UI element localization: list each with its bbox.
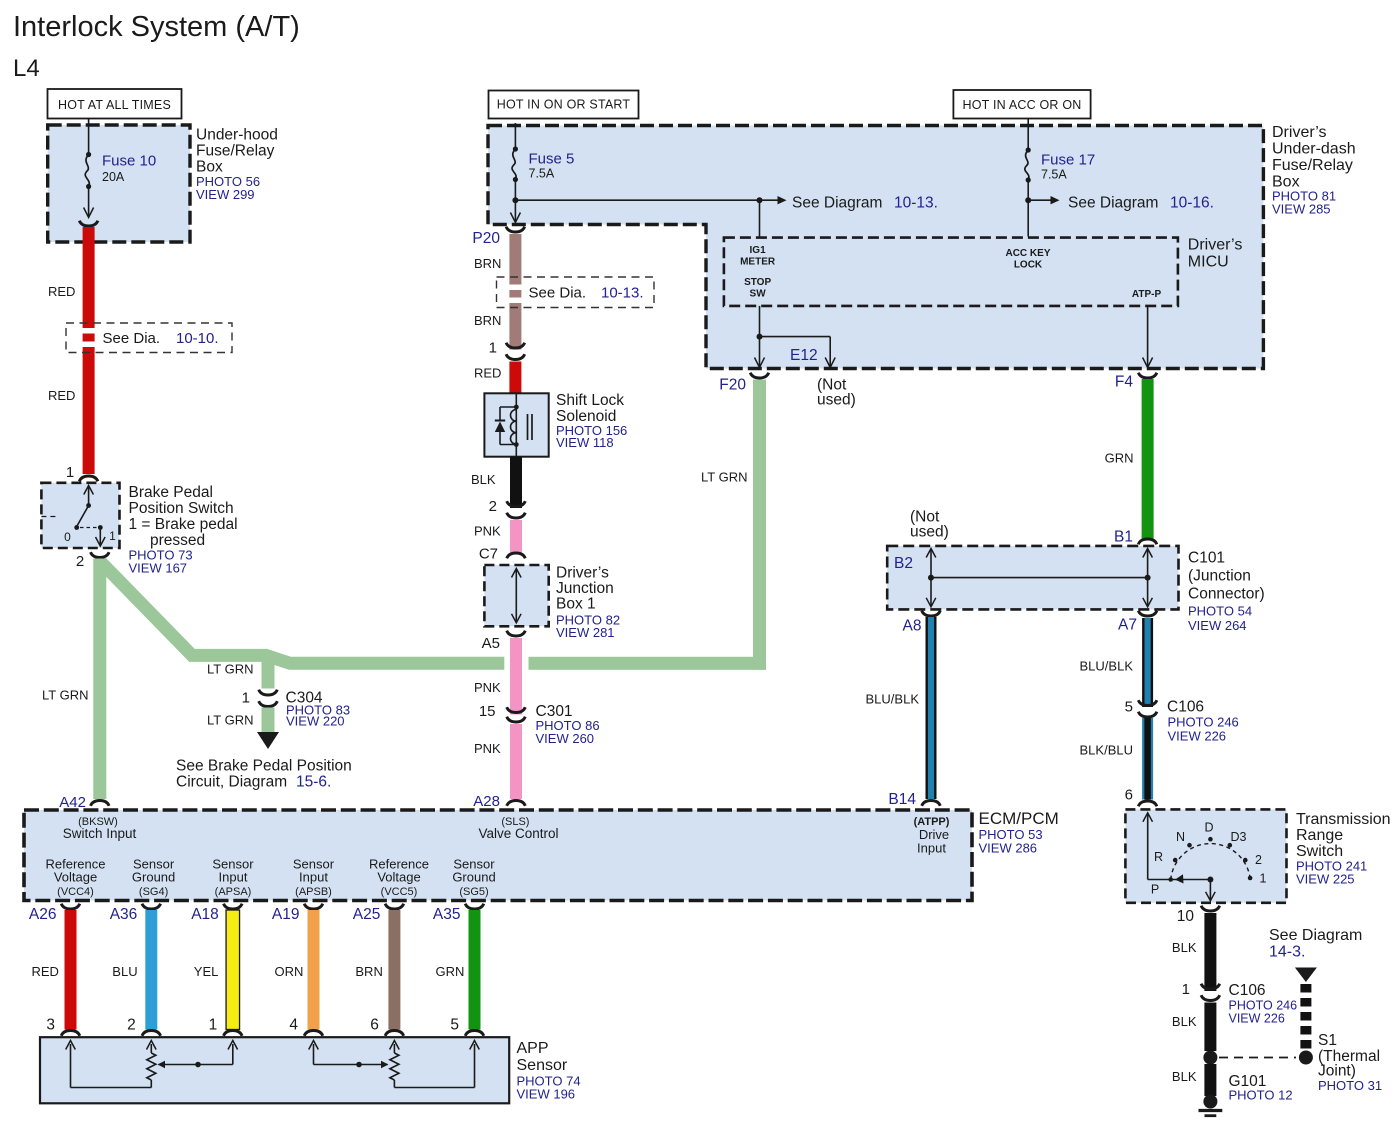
svg-text:VIEW 264: VIEW 264 [1188, 618, 1247, 633]
connector C106 lower [1201, 984, 1220, 989]
svg-text:used): used) [910, 524, 949, 541]
connector C301 [507, 707, 526, 712]
junction dot thermal [1203, 1051, 1217, 1065]
wire RED to solenoid [509, 362, 521, 395]
svg-text:A5: A5 [482, 635, 500, 652]
wire BLU/BLK A7 to C106 [1142, 618, 1153, 707]
svg-text:Junction: Junction [556, 580, 614, 597]
svg-text:S1: S1 [1318, 1032, 1337, 1049]
svg-text:Under-hood: Under-hood [196, 127, 278, 144]
svg-text:Transmission: Transmission [1296, 811, 1391, 828]
svg-text:PHOTO 246: PHOTO 246 [1168, 715, 1239, 730]
connector A28 [507, 801, 526, 806]
svg-text:A8: A8 [903, 618, 922, 635]
svg-text:BLK: BLK [1172, 1069, 1197, 1084]
drivers junction box 1 [484, 565, 548, 626]
svg-text:VIEW 260: VIEW 260 [536, 731, 595, 746]
ground G101 symbol [1203, 1095, 1217, 1109]
wire LT GRN vertical from F20 [753, 380, 766, 670]
wire LT GRN stub to C304 [262, 651, 275, 689]
svg-text:VIEW 220: VIEW 220 [286, 714, 345, 729]
wire IG1 drop [759, 200, 761, 237]
svg-text:A18: A18 [191, 906, 219, 923]
svg-text:2: 2 [127, 1017, 136, 1034]
C101 junction connector box [887, 546, 1178, 610]
svg-text:VIEW 167: VIEW 167 [129, 561, 188, 576]
connector C304 [259, 690, 278, 695]
svg-text:Position Switch: Position Switch [129, 500, 234, 517]
svg-text:IG1: IG1 [750, 245, 767, 256]
svg-text:VIEW 225: VIEW 225 [1296, 872, 1355, 887]
svg-text:VIEW 285: VIEW 285 [1272, 202, 1331, 217]
drivers MICU box [724, 238, 1178, 306]
svg-text:BLK: BLK [1172, 940, 1197, 955]
svg-text:Joint): Joint) [1318, 1063, 1356, 1080]
svg-text:Fuse/Relay: Fuse/Relay [196, 143, 275, 160]
svg-text:(VCC4): (VCC4) [57, 886, 94, 898]
connector pin under fuse box [79, 221, 98, 226]
svg-text:RED: RED [48, 388, 75, 403]
wire LT GRN vertical to A42 [93, 559, 106, 800]
svg-text:L4: L4 [13, 55, 40, 82]
svg-text:PHOTO 12: PHOTO 12 [1229, 1088, 1293, 1103]
connector inline pin2 [507, 501, 526, 506]
svg-text:10: 10 [1177, 908, 1195, 925]
svg-text:Voltage: Voltage [377, 870, 420, 885]
svg-text:6: 6 [1125, 787, 1133, 804]
svg-text:BLU/BLK: BLU/BLK [866, 692, 920, 707]
svg-text:RED: RED [474, 366, 501, 381]
svg-text:VIEW 118: VIEW 118 [556, 435, 614, 450]
svg-text:ACC KEY: ACC KEY [1005, 248, 1050, 259]
wire BLU A36 to APP sensor [145, 910, 157, 1030]
connector F4 [1138, 373, 1157, 378]
see dia 10-13 reference box [497, 277, 655, 308]
svg-text:F20: F20 [719, 377, 746, 394]
under-hood fuse/relay box [48, 125, 190, 242]
svg-text:ECM/PCM: ECM/PCM [979, 809, 1059, 828]
wire fuse5 branch to IG1 [515, 199, 759, 201]
svg-text:VIEW 226: VIEW 226 [1168, 729, 1227, 744]
svg-text:1: 1 [242, 690, 250, 707]
connector A36 [142, 904, 161, 909]
wire RED lower segment [83, 347, 95, 474]
wire LT GRN horizontal to F20 (right part) [529, 657, 767, 670]
junction dot fuse5 branch [512, 197, 518, 203]
svg-text:Ground: Ground [452, 870, 495, 885]
connector pin 6 TRS [1138, 801, 1157, 806]
svg-text:20A: 20A [102, 170, 125, 184]
wire BLU/BLK A8 to B14 [926, 617, 937, 799]
svg-text:SW: SW [750, 289, 767, 300]
svg-text:PHOTO 31: PHOTO 31 [1318, 1078, 1382, 1093]
svg-text:BLK/BLU: BLK/BLU [1080, 743, 1133, 758]
svg-text:1: 1 [209, 1017, 218, 1034]
svg-text:7.5A: 7.5A [1041, 168, 1067, 182]
svg-text:GRN: GRN [436, 964, 465, 979]
svg-text:See Dia.: See Dia. [103, 330, 161, 347]
svg-text:(SG4): (SG4) [139, 886, 168, 898]
thermal joint S1 node [1299, 1051, 1313, 1065]
svg-text:Switch Input: Switch Input [63, 826, 137, 841]
APP sensor internals (potentiometers) [66, 1041, 76, 1050]
svg-text:LOCK: LOCK [1014, 260, 1043, 271]
svg-text:5: 5 [1125, 699, 1133, 716]
svg-text:PNK: PNK [474, 680, 501, 695]
svg-text:BRN: BRN [474, 313, 501, 328]
svg-text:E12: E12 [790, 347, 818, 364]
svg-text:Fuse/Relay: Fuse/Relay [1272, 157, 1353, 174]
svg-text:BRN: BRN [474, 256, 501, 271]
connector A25 [385, 904, 404, 909]
svg-text:PNK: PNK [474, 524, 501, 539]
svg-text:STOP: STOP [744, 277, 771, 288]
svg-text:Sensor: Sensor [517, 1057, 568, 1074]
connector APP pin 5 [465, 1031, 484, 1036]
svg-text:3: 3 [46, 1017, 55, 1034]
connector F20 [750, 373, 769, 378]
svg-text:Input: Input [219, 870, 248, 885]
svg-text:VIEW 299: VIEW 299 [196, 187, 255, 202]
connector A42 [91, 801, 110, 806]
svg-text:BLU/BLK: BLU/BLK [1080, 659, 1134, 674]
svg-text:Driver’s: Driver’s [556, 565, 609, 582]
transmission range switch box [1125, 809, 1286, 902]
solenoid internals [515, 393, 517, 456]
svg-text:A26: A26 [29, 906, 57, 923]
svg-text:Connector): Connector) [1188, 586, 1265, 603]
svg-text:2: 2 [489, 498, 497, 515]
svg-text:N: N [1176, 830, 1185, 844]
svg-text:HOT AT ALL TIMES: HOT AT ALL TIMES [58, 98, 171, 112]
junction box internal arrow [515, 570, 517, 623]
svg-text:Valve Control: Valve Control [478, 826, 558, 841]
svg-text:D3: D3 [1231, 830, 1247, 844]
svg-text:PHOTO 246: PHOTO 246 [1229, 999, 1298, 1013]
svg-text:HOT IN ON OR START: HOT IN ON OR START [497, 98, 631, 112]
fuse F17 [1026, 147, 1031, 152]
svg-text:C101: C101 [1188, 550, 1225, 567]
svg-text:Shift Lock: Shift Lock [556, 392, 624, 409]
svg-text:A25: A25 [353, 906, 381, 923]
svg-text:Brake Pedal: Brake Pedal [129, 484, 213, 501]
svg-text:A28: A28 [473, 793, 500, 810]
svg-text:A7: A7 [1118, 617, 1137, 634]
svg-text:Box 1: Box 1 [556, 596, 596, 613]
connector inline pin1 [506, 343, 525, 348]
svg-text:ORN: ORN [275, 964, 304, 979]
svg-text:1: 1 [109, 529, 116, 543]
svg-text:Switch: Switch [1296, 843, 1343, 860]
svg-text:(APSB): (APSB) [295, 886, 332, 898]
connector A26 [61, 904, 80, 909]
wire STOP SW down [759, 306, 761, 367]
svg-text:Box: Box [196, 159, 223, 176]
svg-text:APP: APP [517, 1040, 549, 1057]
svg-text:10-13.: 10-13. [894, 195, 938, 212]
svg-text:(SG5): (SG5) [459, 886, 488, 898]
wire RED A26 to APP sensor [65, 910, 77, 1030]
wire RED mid segment [83, 334, 95, 342]
wire E12 branch [760, 336, 831, 338]
wire RED fuse10 to brake switch (upper) [83, 227, 95, 328]
fuse F10 [86, 152, 91, 157]
svg-text:F4: F4 [1115, 374, 1133, 391]
arrow see diagram 10-16 [1028, 199, 1052, 201]
svg-text:10-16.: 10-16. [1170, 195, 1214, 212]
svg-text:BLU: BLU [112, 964, 137, 979]
svg-text:LT GRN: LT GRN [42, 688, 88, 703]
power tag HOT IN ACC OR ON [953, 90, 1090, 119]
svg-text:Fuse 17: Fuse 17 [1041, 152, 1095, 169]
svg-text:(Junction: (Junction [1188, 568, 1251, 585]
connector P20 [506, 227, 525, 232]
see dia 10-10 reference box [66, 323, 232, 353]
connector pin 10 [1201, 906, 1220, 911]
shift lock solenoid box [484, 393, 548, 456]
junction dot fuse17 [1025, 197, 1031, 203]
svg-text:LT GRN: LT GRN [701, 470, 747, 485]
connector pin 1 brake switch [79, 476, 98, 481]
wire BRN upper [509, 234, 521, 285]
svg-text:1: 1 [1260, 872, 1267, 886]
APP sensor box [40, 1037, 509, 1103]
svg-text:Driver’s: Driver’s [1272, 124, 1327, 141]
svg-text:P20: P20 [472, 230, 500, 247]
thermal joint arrow [1295, 968, 1317, 983]
thermal joint dashed link [1219, 1057, 1296, 1059]
connector APP pin 2 [142, 1031, 161, 1036]
svg-text:10-13.: 10-13. [601, 285, 644, 302]
svg-text:METER: METER [740, 257, 776, 268]
svg-text:B2: B2 [894, 555, 913, 572]
svg-text:See Diagram: See Diagram [1068, 195, 1158, 212]
svg-text:A36: A36 [110, 906, 138, 923]
wire PNK C301 to A28 [510, 724, 522, 799]
wire LT GRN horizontal to F20 (left part) [266, 655, 504, 663]
connector APP pin 6 [385, 1031, 404, 1036]
svg-text:See Brake Pedal Position: See Brake Pedal Position [176, 758, 352, 775]
power tag HOT IN ON OR START [489, 91, 639, 119]
wire YEL A18 to APP sensor [226, 910, 240, 1030]
svg-text:ATP-P: ATP-P [1132, 289, 1162, 300]
svg-text:1: 1 [1182, 981, 1190, 998]
junction dot E12 branch [757, 334, 763, 340]
svg-text:Ground: Ground [132, 870, 175, 885]
svg-text:See Diagram: See Diagram [792, 195, 882, 212]
connector APP pin 4 [304, 1031, 323, 1036]
wire LT GRN below C304 [262, 708, 275, 733]
svg-text:C106: C106 [1167, 699, 1204, 716]
svg-text:D: D [1204, 821, 1213, 835]
wire from HOT tag to fuse 5 [514, 123, 516, 147]
brake pedal position switch box [41, 483, 119, 548]
wire from HOT tag to fuse 10 [88, 119, 90, 153]
svg-text:pressed: pressed [150, 532, 205, 549]
svg-text:1: 1 [489, 340, 497, 357]
svg-text:RED: RED [32, 964, 59, 979]
connector APP pin 3 [61, 1031, 80, 1036]
TRS contacts [1168, 877, 1173, 882]
svg-text:Input: Input [299, 870, 328, 885]
svg-text:Voltage: Voltage [54, 870, 97, 885]
wire from HOT tag to fuse 17 [1027, 119, 1029, 149]
connector C106 upper [1138, 700, 1157, 705]
svg-text:Circuit, Diagram: Circuit, Diagram [176, 774, 287, 791]
svg-text:BRN: BRN [355, 964, 382, 979]
svg-text:Input: Input [917, 841, 946, 856]
wire BLK 10 to C106 [1204, 913, 1216, 991]
C101 internal arrows [930, 550, 932, 607]
connector B1 [1138, 539, 1157, 544]
svg-text:RED: RED [48, 284, 75, 299]
connector C7 [507, 553, 526, 558]
svg-text:R: R [1154, 850, 1163, 864]
wire BLK solenoid [510, 457, 522, 508]
svg-text:Fuse 5: Fuse 5 [529, 151, 575, 168]
wire LT GRN diagonal branch [101, 562, 268, 655]
svg-text:VIEW 196: VIEW 196 [517, 1087, 576, 1102]
svg-text:LT GRN: LT GRN [207, 713, 253, 728]
svg-text:Interlock System (A/T): Interlock System (A/T) [13, 11, 300, 43]
svg-text:MICU: MICU [1188, 254, 1229, 271]
wire BLK/BLU C106 to 6 [1142, 718, 1153, 800]
wire ATP-P down [1147, 306, 1149, 367]
TRS contact arc [1171, 844, 1250, 880]
connector APP pin 1 [224, 1031, 243, 1036]
svg-text:See Diagram: See Diagram [1269, 927, 1362, 944]
svg-text:PHOTO 54: PHOTO 54 [1188, 604, 1252, 619]
svg-text:1: 1 [66, 464, 74, 481]
svg-text:15: 15 [479, 703, 496, 720]
connector B14 [922, 801, 941, 806]
svg-text:VIEW 281: VIEW 281 [556, 625, 615, 640]
wire GRN F4 to B1 [1142, 379, 1154, 539]
svg-text:Under-dash: Under-dash [1272, 141, 1356, 158]
svg-text:LT GRN: LT GRN [207, 662, 253, 677]
TRS internal common line [1147, 814, 1149, 880]
svg-text:0: 0 [64, 530, 71, 544]
svg-text:Driver’s: Driver’s [1188, 237, 1243, 254]
svg-text:B1: B1 [1114, 529, 1133, 546]
svg-text:2: 2 [76, 553, 84, 570]
wire BRN mid [509, 290, 521, 298]
svg-text:BLK: BLK [1172, 1014, 1197, 1029]
svg-text:10-10.: 10-10. [176, 330, 219, 347]
svg-text:Range: Range [1296, 827, 1343, 844]
arrow see diagram 10-13 [760, 199, 780, 201]
svg-text:14-3.: 14-3. [1269, 944, 1305, 961]
svg-text:2: 2 [1255, 853, 1262, 867]
svg-text:7.5A: 7.5A [529, 167, 555, 181]
connector A19 [304, 904, 323, 909]
connector A5 [507, 631, 526, 636]
svg-text:5: 5 [450, 1017, 459, 1034]
drivers under-dash fuse/relay box (L shape) [488, 126, 1263, 369]
wire GRN A35 to APP sensor [469, 910, 481, 1030]
brake switch internals [88, 486, 90, 506]
wire BLK C106 to G101 [1204, 1003, 1216, 1052]
wire BRN lower [509, 303, 521, 350]
wire ORN A19 to APP sensor [308, 910, 320, 1030]
junction dot at IG1 drop [757, 197, 763, 203]
svg-text:6: 6 [370, 1017, 379, 1034]
wire PNK to C7 [510, 520, 522, 553]
svg-text:See Dia.: See Dia. [529, 285, 587, 302]
svg-text:GRN: GRN [1105, 451, 1134, 466]
svg-text:P: P [1151, 883, 1159, 897]
svg-text:A19: A19 [272, 906, 300, 923]
thermal joint bar [1300, 984, 1311, 1049]
svg-text:4: 4 [289, 1017, 298, 1034]
svg-text:15-6.: 15-6. [296, 774, 331, 791]
svg-text:used): used) [817, 392, 856, 409]
connector A7 [1138, 611, 1157, 616]
wire BRN A25 to APP sensor [388, 910, 400, 1030]
arrowhead to brake pedal circuit [257, 732, 279, 749]
svg-text:C7: C7 [479, 546, 498, 563]
svg-text:VIEW 226: VIEW 226 [1229, 1012, 1285, 1026]
svg-text:HOT IN ACC OR ON: HOT IN ACC OR ON [963, 98, 1082, 112]
svg-text:C106: C106 [1229, 982, 1266, 999]
connector A18 [224, 904, 243, 909]
wire BLK to ground [1204, 1064, 1216, 1096]
connector A8 [922, 611, 941, 616]
svg-text:1 = Brake pedal: 1 = Brake pedal [129, 516, 238, 533]
power tag HOT AT ALL TIMES [48, 89, 182, 119]
svg-text:VIEW 286: VIEW 286 [979, 841, 1038, 856]
connector pin 2 brake switch [91, 552, 110, 557]
connector A35 [465, 904, 484, 909]
svg-text:(APSA): (APSA) [215, 886, 252, 898]
svg-text:YEL: YEL [194, 964, 219, 979]
svg-text:Fuse 10: Fuse 10 [102, 153, 156, 170]
wire PNK A5 to C301 [510, 638, 522, 715]
svg-text:A35: A35 [433, 906, 461, 923]
svg-text:BLK: BLK [471, 472, 496, 487]
ECM/PCM box [24, 810, 972, 901]
svg-text:B14: B14 [888, 791, 916, 808]
svg-text:PNK: PNK [474, 741, 501, 756]
fuse F5 [513, 146, 518, 151]
svg-text:(VCC5): (VCC5) [381, 886, 418, 898]
